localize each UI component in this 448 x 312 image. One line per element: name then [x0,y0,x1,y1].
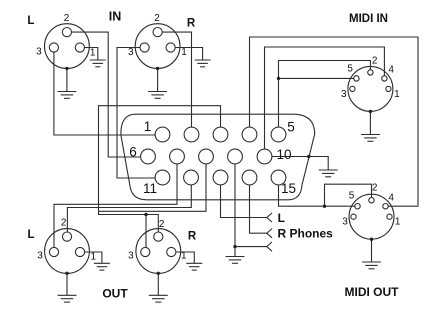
svg-text:1: 1 [395,217,401,228]
svg-text:15: 15 [281,181,296,196]
svg-text:2: 2 [372,183,378,194]
svg-text:L: L [27,15,34,27]
svg-text:3: 3 [341,89,347,100]
svg-text:4: 4 [388,193,394,204]
svg-text:5: 5 [347,64,353,75]
svg-text:L: L [27,229,34,241]
svg-text:10: 10 [276,147,291,162]
svg-text:2: 2 [61,218,67,229]
svg-text:2: 2 [372,55,378,66]
svg-text:2: 2 [154,13,160,24]
svg-text:R: R [188,231,197,243]
svg-text:2: 2 [159,219,165,230]
svg-text:1: 1 [394,89,400,100]
svg-text:3: 3 [128,47,134,58]
svg-text:1: 1 [181,251,187,262]
svg-text:1: 1 [90,47,96,58]
svg-text:MIDI OUT: MIDI OUT [345,285,400,299]
svg-text:IN: IN [109,10,122,24]
svg-text:5: 5 [349,191,355,202]
svg-text:1: 1 [181,47,187,58]
svg-text:11: 11 [143,181,157,196]
svg-text:3: 3 [342,217,348,228]
svg-text:5: 5 [287,120,295,135]
svg-text:OUT: OUT [102,287,128,301]
svg-text:L: L [278,211,285,225]
svg-text:R: R [187,18,196,30]
svg-text:1: 1 [91,252,97,263]
svg-text:3: 3 [128,251,134,262]
svg-text:2: 2 [64,13,70,24]
svg-text:R Phones: R Phones [278,226,334,240]
svg-text:6: 6 [129,145,137,160]
svg-text:4: 4 [388,65,394,76]
svg-text:1: 1 [144,119,152,134]
svg-text:3: 3 [36,47,42,58]
svg-text:3: 3 [37,251,43,262]
svg-text:MIDI IN: MIDI IN [349,13,388,25]
